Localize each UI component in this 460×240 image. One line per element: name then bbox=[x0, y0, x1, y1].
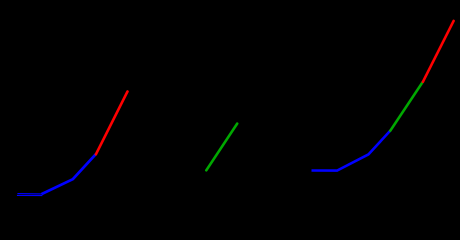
right panel: red segment bbox=[423, 21, 454, 82]
left panel: red segment bbox=[96, 92, 128, 155]
left panel: blue curve bbox=[42, 154, 96, 194]
right panel: green segment bbox=[390, 82, 423, 131]
middle panel: green segment bbox=[206, 124, 237, 171]
left panel: lower thin blue line bbox=[17, 194, 42, 196]
right panel: blue curve bbox=[312, 131, 391, 171]
left panel: upper thin blue line bbox=[17, 193, 41, 195]
